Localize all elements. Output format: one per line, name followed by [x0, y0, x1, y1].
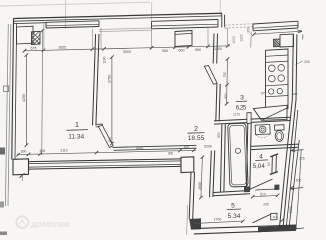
- room divider wall 1|2 line a: [93, 34, 96, 125]
- room 1 label bar: [67, 129, 89, 132]
- kitchen left wall upper a: [212, 34, 215, 64]
- 810 dim ticks: [251, 194, 280, 199]
- pier between windows sill line 2: [99, 30, 152, 32]
- counter divider 2 (stove top): [266, 61, 289, 62]
- room1 vertical dim line: [25, 55, 27, 145]
- ext line below window3 left jamb: [250, 32, 252, 48]
- toilet tank: [274, 125, 284, 131]
- svg-text:1100: 1100: [103, 56, 107, 63]
- watermark: [16, 216, 70, 229]
- entry door jamb rect: [271, 213, 277, 220]
- tub room left wall b: [224, 124, 225, 191]
- bottom wall room5 line b: [194, 230, 296, 234]
- svg-text:1175: 1175: [233, 113, 240, 117]
- watermark ring icon: [16, 216, 28, 228]
- kitchen door leaf: [204, 66, 217, 85]
- svg-text:4: 4: [259, 153, 263, 160]
- 2600 dim line: [201, 157, 203, 198]
- 2600 dim ticks: [199, 155, 204, 199]
- facade step wall at x222: [222, 14, 225, 28]
- window W1 mid: [46, 24, 99, 26]
- svg-text:18.55: 18.55: [188, 135, 205, 142]
- room2 dim ticks: [110, 55, 114, 145]
- room5 top wall a (to room2 door): [210, 151, 212, 198]
- faint ext line above facade x65: [64, 0, 66, 29]
- svg-text:300: 300: [21, 150, 27, 154]
- svg-text:975: 975: [261, 91, 267, 95]
- dashed balcony line 1: [225, 24, 253, 26]
- bottom thick wall band line 4: [29, 166, 182, 169]
- room divider wall 1|2 line b: [96, 34, 99, 126]
- room5 left wall a: [189, 172, 191, 219]
- window W1 top: [46, 21, 99, 23]
- bottom dim row line: [17, 150, 196, 154]
- door leaf room1-2: [98, 125, 113, 147]
- kitchen table trapezoid: [253, 105, 287, 120]
- frame mark square: [4, 86, 9, 92]
- block1 bottom-left: [13, 159, 29, 175]
- svg-text:5: 5: [231, 202, 235, 209]
- facade second line: [14, 16, 223, 21]
- bottom wall room5 line a: [194, 225, 296, 229]
- page crease top-left: [0, 2, 150, 6]
- frame dark blob 1: [0, 148, 5, 155]
- svg-text:750: 750: [223, 72, 227, 78]
- svg-text:950: 950: [162, 49, 168, 53]
- facade pier A inner line: [14, 22, 46, 25]
- svg-text:90: 90: [267, 162, 271, 166]
- block1 下 ext line: [21, 175, 23, 181]
- bottom wall dark fill right part: [258, 225, 296, 232]
- scan frame line left outer: [5, 24, 8, 206]
- svg-text:2600: 2600: [198, 182, 202, 190]
- bottom thick wall band line 2: [29, 161, 182, 164]
- svg-text:4200: 4200: [22, 94, 26, 102]
- svg-text:2110: 2110: [60, 148, 67, 152]
- block1 tick: [20, 173, 25, 178]
- sink bowl 1: [269, 89, 274, 94]
- block2 pillar: [181, 157, 194, 173]
- svg-text:3000: 3000: [123, 50, 131, 54]
- svg-text:950: 950: [217, 132, 221, 138]
- room 4 label bar: [255, 159, 268, 162]
- tub room right wall b: [250, 123, 251, 190]
- kitchen table diagonal: [262, 108, 288, 120]
- scan frame line left inner: [8, 24, 11, 206]
- arrowhead right of W3 dim: [298, 30, 303, 33]
- svg-text:3: 3: [240, 95, 244, 102]
- divider jamb block: [247, 113, 251, 124]
- sink bowl 2: [277, 88, 282, 93]
- top dim row line: [25, 46, 231, 51]
- counter divider 4: [266, 96, 289, 97]
- window W3 right jamb: [297, 21, 299, 28]
- right wall ext line E: [296, 150, 301, 230]
- svg-text:300: 300: [168, 152, 174, 156]
- right wall inner face: [279, 35, 293, 228]
- faint ext line above facade x220: [219, 0, 221, 15]
- right wall line C: [286, 110, 298, 228]
- svg-text:950: 950: [195, 48, 201, 52]
- jamb tick marks: [270, 154, 278, 175]
- bottom wall rooms1-2 face line b: [114, 148, 197, 150]
- watermark house mark inside ring: [20, 220, 26, 225]
- window W1 left jamb: [45, 22, 47, 28]
- svg-text:500: 500: [179, 48, 185, 52]
- toilet bowl: [275, 130, 284, 141]
- corner pilaster square: [17, 26, 33, 44]
- counter divider 1: [266, 55, 289, 56]
- svg-text:6.25: 6.25: [236, 105, 247, 112]
- window W2 bottom: [152, 27, 219, 29]
- toilet bowl inner: [277, 132, 282, 140]
- tub room bottom wall a: [214, 191, 251, 193]
- bathroom washing machine: [255, 124, 270, 134]
- washer door arc dashed: [256, 135, 269, 138]
- window W1 right jamb: [98, 21, 100, 27]
- stove burner 4: [278, 75, 285, 82]
- svg-text:1000: 1000: [289, 206, 293, 214]
- dark jamb at tub room bottom: [244, 186, 250, 192]
- svg-text:950: 950: [247, 27, 251, 33]
- window W1 bottom: [46, 27, 99, 29]
- svg-text:1200: 1200: [214, 47, 222, 51]
- right wall outer face: [283, 34, 297, 228]
- kitchen door dim ticks: [225, 57, 229, 105]
- right wall small tick below window3 dim: [302, 34, 304, 39]
- kitchen door dim line: [226, 59, 229, 104]
- room5 top wall b: [213, 150, 215, 197]
- stove burner 1: [269, 65, 276, 72]
- pier between windows sill line 1: [99, 28, 152, 30]
- right side arrow at y229: [289, 227, 304, 231]
- left wall outer: [12, 19, 14, 160]
- right wall line D: [289, 140, 299, 228]
- stove burner 2: [278, 65, 285, 72]
- frame blob 2: [0, 202, 4, 208]
- svg-text:675: 675: [31, 46, 37, 50]
- window W2 left jamb: [151, 21, 153, 29]
- dashed balcony line 2: [225, 27, 253, 29]
- svg-text:2620: 2620: [136, 146, 144, 150]
- window W2 right jamb: [217, 20, 219, 28]
- room1 dim ticks: [25, 53, 29, 147]
- room 5 label bar: [227, 208, 241, 211]
- washer drum outer: [259, 126, 266, 133]
- door leaf foot: [255, 189, 275, 190]
- ext verticals to dim row: [44, 24, 228, 52]
- vent pier inner line: [175, 33, 192, 34]
- kitchen/bath divider wall b: [214, 121, 290, 125]
- bottom dim row ticks: [16, 148, 196, 156]
- window W2 mid: [152, 24, 219, 26]
- door jog room1: [96, 124, 103, 127]
- svg-text:200: 200: [304, 60, 310, 64]
- svg-text:5.34: 5.34: [228, 213, 241, 220]
- svg-text:3750: 3750: [107, 75, 111, 83]
- column dim ext line: [41, 31, 44, 156]
- tick crossing wall bottom: [280, 219, 284, 222]
- bottom wall rooms1-2 face line a: [113, 145, 197, 147]
- kitchen/bath divider wall a: [214, 117, 290, 121]
- room5 bottom-left dark corner: [189, 218, 201, 229]
- kitchen counter outline: [266, 49, 289, 110]
- kitchen corner white pier: [280, 34, 294, 47]
- svg-text:205: 205: [299, 157, 305, 161]
- window W3 left jamb: [252, 24, 254, 31]
- svg-text:2: 2: [194, 124, 198, 133]
- window W2 top: [152, 20, 219, 22]
- entry door diagonal: [252, 214, 272, 223]
- svg-text:810: 810: [260, 192, 266, 196]
- hatched column: [32, 31, 41, 44]
- svg-text:110: 110: [273, 215, 278, 219]
- bottom thick wall band line 1: [29, 159, 182, 162]
- right wall tick at kitchen window: [292, 93, 297, 95]
- kitchen left wall upper b: [216, 34, 219, 64]
- kitchen left wall lower b: [219, 84, 220, 122]
- svg-text:450: 450: [108, 137, 112, 143]
- bathroom bottom wall a: [251, 144, 299, 146]
- room2 vertical dim line: [111, 57, 113, 144]
- svg-text:1200: 1200: [239, 34, 243, 42]
- right side arrow at y188: [290, 186, 303, 190]
- svg-text:11.34: 11.34: [68, 134, 84, 141]
- column dim tick: [41, 29, 45, 33]
- svg-text:950: 950: [224, 93, 228, 99]
- 1700 dim ticks: [192, 219, 245, 225]
- bathroom bottom wall b: [251, 147, 299, 149]
- window W3 bottom: [253, 28, 298, 31]
- vent pier below window2: [175, 31, 192, 47]
- bathroom door jamb b: [275, 155, 278, 173]
- door hinge jamb block: [274, 185, 279, 191]
- stove burner 3: [269, 75, 276, 82]
- room 2 label bar: [188, 132, 205, 135]
- bottom thick wall band line 3: [29, 164, 182, 167]
- 1700 dim line: [194, 221, 243, 223]
- room 3 label bar: [236, 100, 247, 103]
- tub room bottom wall b: [214, 194, 251, 196]
- tub room left wall a: [221, 125, 222, 192]
- bathtub outer: [228, 123, 248, 187]
- 810 dim line: [253, 195, 278, 196]
- facade outer line: [14, 13, 223, 18]
- dim line under window W3: [254, 31, 302, 34]
- washer drum inner: [261, 128, 264, 131]
- kitchen left wall lower a: [216, 84, 217, 122]
- bottom-left page smudge: [0, 232, 7, 236]
- svg-text:500: 500: [184, 145, 190, 149]
- right side arrow at y150: [292, 148, 304, 152]
- dim leader for 200: [296, 61, 304, 65]
- bathroom door jamb a: [271, 156, 274, 174]
- window W3 top: [253, 21, 298, 24]
- room4-room5 door leaf diagonal: [248, 179, 273, 190]
- svg-text:5,04: 5,04: [253, 163, 266, 170]
- tub room right wall a: [246, 123, 247, 190]
- svg-text:1700: 1700: [214, 217, 222, 221]
- svg-text:1000: 1000: [232, 36, 236, 44]
- bathtub drain circle: [235, 148, 240, 153]
- svg-text:5200: 5200: [204, 144, 212, 148]
- svg-text:605: 605: [296, 178, 302, 182]
- svg-text:1: 1: [75, 120, 79, 129]
- svg-text:205: 205: [263, 203, 269, 207]
- kitchen corner hatched block: [274, 39, 281, 47]
- tick left of W3 dim: [252, 32, 256, 36]
- room5 left wall b: [193, 172, 195, 219]
- bathtub inner: [230, 125, 247, 185]
- svg-text:600: 600: [40, 149, 46, 153]
- counter divider 3 (stove bottom): [266, 85, 289, 86]
- svg-text:1635: 1635: [58, 46, 66, 50]
- window W3 mid: [253, 25, 298, 28]
- left wall inner: [15, 23, 17, 160]
- top dim row ticks: [23, 44, 230, 52]
- faint ext line above facade x151: [151, 2, 153, 20]
- ext line left of room5: [187, 205, 188, 235]
- svg-text:ДОМКЛИК: ДОМКЛИК: [31, 220, 71, 229]
